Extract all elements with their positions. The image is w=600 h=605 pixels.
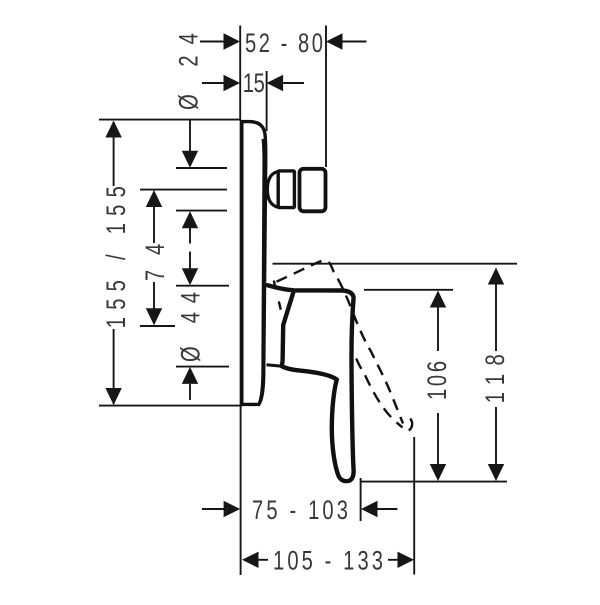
dimension 74 line bbox=[153, 207, 155, 310]
dimension 52-80 bbox=[200, 41, 224, 43]
diverter knob cylinder bbox=[278, 171, 294, 208]
lever handle (solid, down position) bbox=[268, 285, 354, 481]
extension line x=240 above plate bbox=[239, 26, 241, 121]
svg-text:15: 15 bbox=[243, 68, 265, 97]
extension line y=263.7 (118 top) bbox=[273, 263, 518, 265]
tick at y=285.5 bbox=[176, 285, 229, 287]
extension line y=289.8 (106 top) bbox=[364, 289, 453, 291]
svg-text:118: 118 bbox=[480, 354, 509, 403]
extension line x=360.5 (solid handle tip) bbox=[360, 478, 362, 521]
plate rim inner line bbox=[259, 139, 263, 403]
extension line y=481.6 (bottom ref) bbox=[360, 481, 507, 483]
diverter knob cap bbox=[300, 169, 326, 212]
dimension chain x=190: O24 top arrow bbox=[189, 120, 191, 151]
extension line bottom of plate (left) bbox=[99, 405, 242, 407]
dashed lever (raised position) top edge bbox=[277, 261, 404, 424]
dimension 106 bbox=[430, 291, 446, 308]
dimension 155/155 line bbox=[113, 122, 115, 404]
dashed lever tip arc bbox=[409, 419, 412, 431]
O44 bottom arrow bbox=[182, 367, 198, 384]
svg-text:155 / 155: 155 / 155 bbox=[101, 186, 130, 328]
dashed lever lower edge bbox=[356, 359, 402, 428]
tick at y=326 bbox=[140, 325, 175, 327]
tick at y=366.5 bbox=[176, 366, 229, 368]
tick at y=189.5 bbox=[140, 189, 227, 191]
extension line x=266.5 (15 dim right) bbox=[266, 71, 268, 131]
O24 bottom arrow / O44 top arrow shared stem bbox=[182, 211, 198, 228]
dashed lever pivot edge bbox=[274, 281, 282, 314]
extension line x=240.5 below plate bbox=[240, 406, 242, 575]
svg-text:106: 106 bbox=[422, 361, 451, 400]
svg-text:105 - 133: 105 - 133 bbox=[273, 546, 383, 575]
faucet plate (escutcheon, side view) bbox=[242, 120, 413, 481]
tick at y=210.5 (knob bottom) bbox=[176, 210, 227, 212]
dimension 118 bbox=[488, 268, 504, 285]
dimension 75-103 bbox=[202, 508, 224, 510]
dimension 105-133 bbox=[242, 552, 259, 568]
dimension 15 bbox=[202, 82, 224, 84]
extension line x=326 (52-80 right) bbox=[325, 26, 327, 168]
tick at y=168 (knob top) bbox=[176, 167, 227, 169]
svg-text:75 - 103: 75 - 103 bbox=[252, 495, 348, 524]
extension line top of plate (left) bbox=[99, 119, 240, 121]
lever bracket line bbox=[267, 365, 283, 366]
diverter knob neck bbox=[267, 172, 278, 208]
extension line x=414 (dashed handle tip) bbox=[413, 437, 415, 575]
